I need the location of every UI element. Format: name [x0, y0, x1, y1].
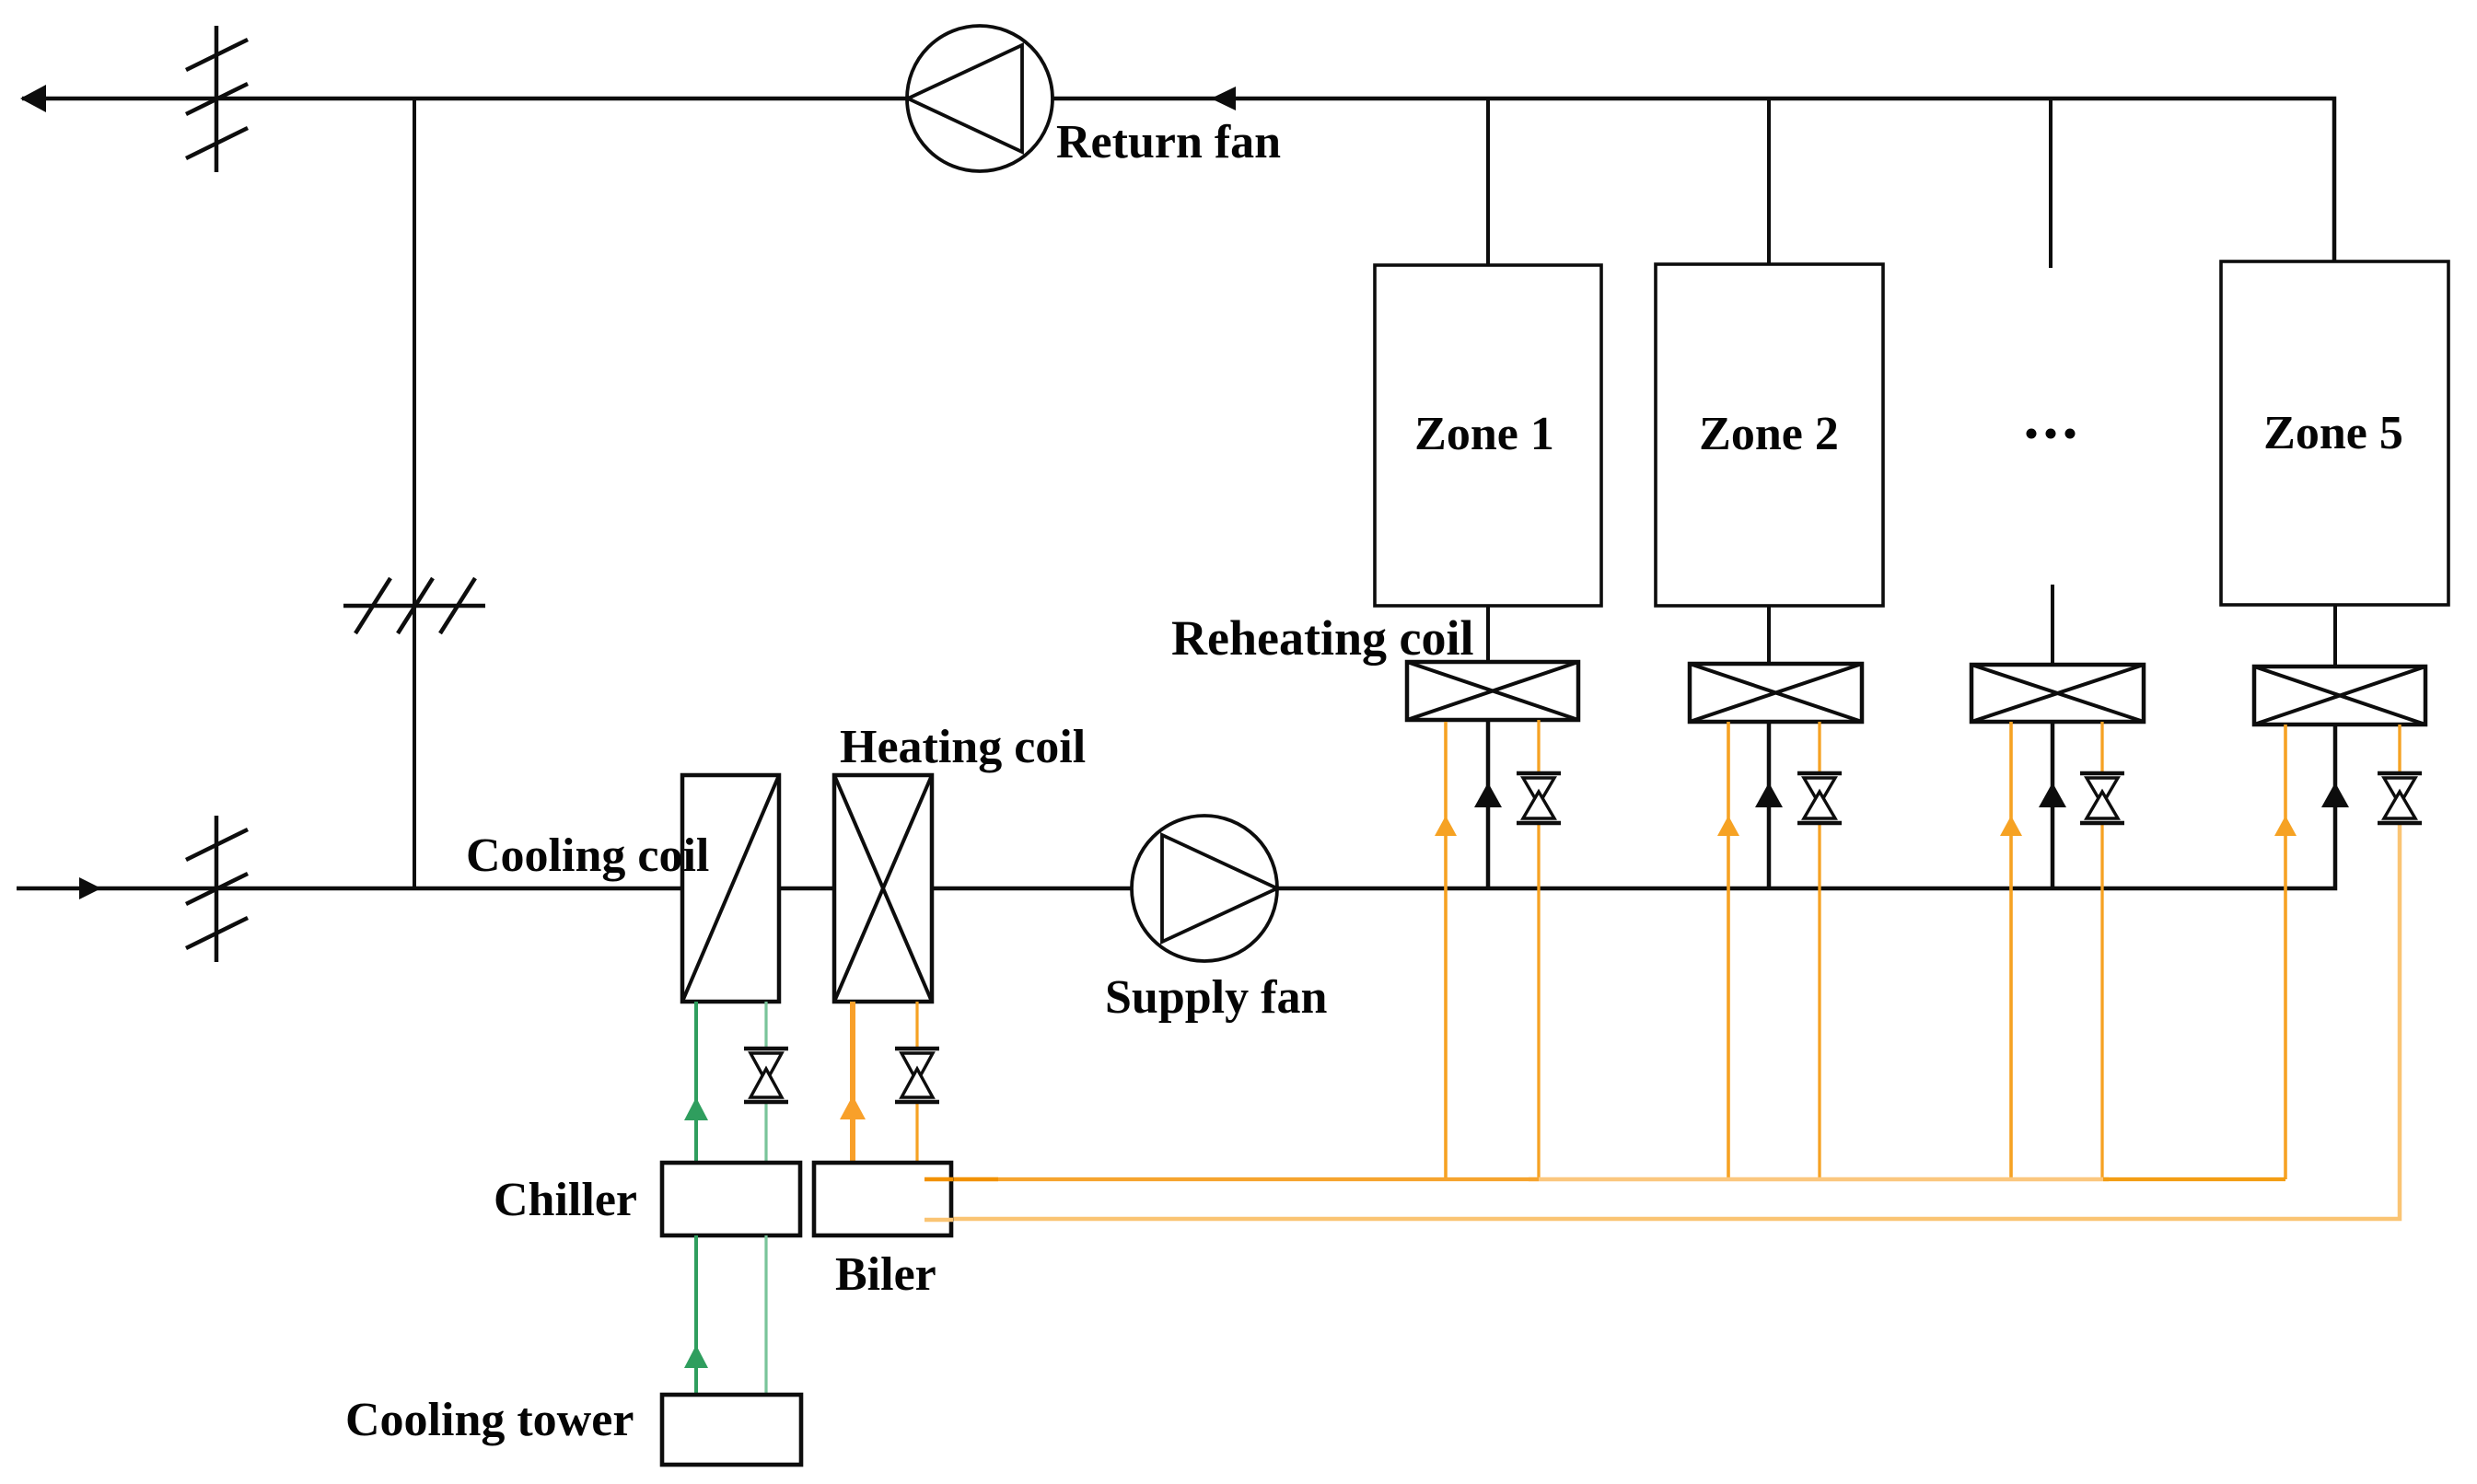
- valve V1 zone1: [1517, 773, 1561, 823]
- arrow thick orange: [840, 1096, 866, 1119]
- cooling coil CC: [682, 775, 779, 1002]
- pipe hot water return thin orange: [915, 1002, 918, 1163]
- arrow return duct left end: [20, 85, 46, 112]
- svg-text:Chiller: Chiller: [494, 1174, 637, 1226]
- arrow black riser zone1: [1474, 783, 1502, 807]
- svg-text:Cooling tower: Cooling tower: [345, 1394, 634, 1446]
- pipe upper manifold medium segment: [998, 1177, 1539, 1181]
- wire return duct main: [22, 99, 2334, 261]
- wire zone1 to coil: [1486, 606, 1490, 662]
- svg-text:Zone 1: Zone 1: [1414, 408, 1554, 460]
- arrow orange riser zone5: [2274, 816, 2297, 836]
- pipe upper manifold dark segment left: [951, 1177, 998, 1182]
- arrow black riser ellipsis: [2039, 783, 2066, 807]
- wire zone5 to coil: [2333, 605, 2337, 667]
- arrow orange riser zone2: [1717, 816, 1739, 836]
- svg-text:Cooling coil: Cooling coil: [466, 829, 709, 882]
- pipe hot water returns orange with valves: [1539, 720, 2102, 1179]
- reheating coil RC2: [1690, 664, 1862, 722]
- zone 1 box: [1375, 265, 1601, 606]
- node ellipsis zones: [2027, 429, 2076, 439]
- arrow black riser zone5: [2321, 783, 2349, 807]
- damper D1 return duct: [186, 26, 248, 172]
- wire return drop zone 1: [1486, 99, 1490, 265]
- reheating coil RC3: [1971, 665, 2144, 722]
- pipe hot water supply thick orange: [850, 1002, 855, 1163]
- wire return drop zone 2: [1767, 99, 1771, 264]
- pipe chilled water supply dark green: [694, 1002, 698, 1163]
- svg-text:Zone 2: Zone 2: [1699, 408, 1839, 460]
- pipe boiler outlet stub lower: [925, 1218, 953, 1223]
- return fan F1: [907, 26, 1052, 171]
- arrow black riser zone2: [1755, 783, 1783, 807]
- pipe hot water supply risers orange: [1446, 722, 2285, 1179]
- wire supply riser black zone1: [1486, 720, 1491, 888]
- pipe zone5 return orange upper segment: [2398, 725, 2401, 794]
- damper D2 recirculation: [343, 578, 485, 633]
- svg-text:Return fan: Return fan: [1056, 116, 1281, 168]
- heating coil HC: [834, 775, 932, 1002]
- pipe zone5 return orange to lower manifold: [951, 810, 2400, 1219]
- valve V6 chilled return: [744, 1049, 788, 1102]
- valve V5 zone5: [2378, 773, 2422, 823]
- svg-text:Zone 5: Zone 5: [2263, 407, 2403, 459]
- zone 2 box: [1656, 264, 1883, 606]
- arrow orange riser ellipsis: [2000, 816, 2022, 836]
- svg-text:Reheating coil: Reheating coil: [1171, 610, 1473, 666]
- reheating coil RC1: [1407, 662, 1578, 720]
- arrow condenser dark green: [684, 1345, 708, 1368]
- wire supply riser black ellipsis: [2051, 722, 2055, 887]
- damper D3 supply duct: [186, 816, 248, 962]
- wire supply riser black zone2: [1767, 722, 1772, 888]
- svg-text:Supply fan: Supply fan: [1105, 971, 1327, 1024]
- valve V7 hot return: [895, 1049, 939, 1102]
- wire supply duct main: [17, 725, 2335, 888]
- pipe boiler outlet stub upper: [925, 1177, 953, 1182]
- valve V2 zone2: [1797, 773, 1842, 823]
- reheating coil RC5: [2254, 667, 2425, 725]
- wire return drop ellipsis: [2049, 99, 2053, 268]
- wire recirculation vertical: [413, 99, 416, 888]
- pipe chilled water return light green: [764, 1002, 767, 1163]
- supply fan F2: [1132, 816, 1277, 961]
- pipe upper hot manifold pale segment: [1529, 1177, 2109, 1182]
- arrow return duct mid (leftward): [1211, 87, 1236, 110]
- pipe condenser water dark green lower: [694, 1235, 698, 1395]
- wire zone2 to coil: [1767, 606, 1771, 664]
- arrow supply duct left (rightward): [79, 877, 101, 899]
- cooling tower box: [662, 1395, 801, 1465]
- boiler box: [814, 1163, 951, 1235]
- zone 5 box: [2221, 261, 2448, 605]
- wire ellipsis to coil: [2051, 585, 2054, 665]
- chiller box: [662, 1163, 800, 1235]
- pipe upper manifold dark segment right: [2103, 1177, 2285, 1181]
- svg-text:Heating coil: Heating coil: [840, 721, 1086, 773]
- arrow dark green: [684, 1097, 708, 1120]
- arrow orange riser zone1: [1435, 816, 1457, 836]
- pipe condenser water light green lower: [764, 1235, 767, 1395]
- svg-text:Biler: Biler: [835, 1248, 936, 1301]
- valve V3 ellipsis: [2080, 773, 2124, 823]
